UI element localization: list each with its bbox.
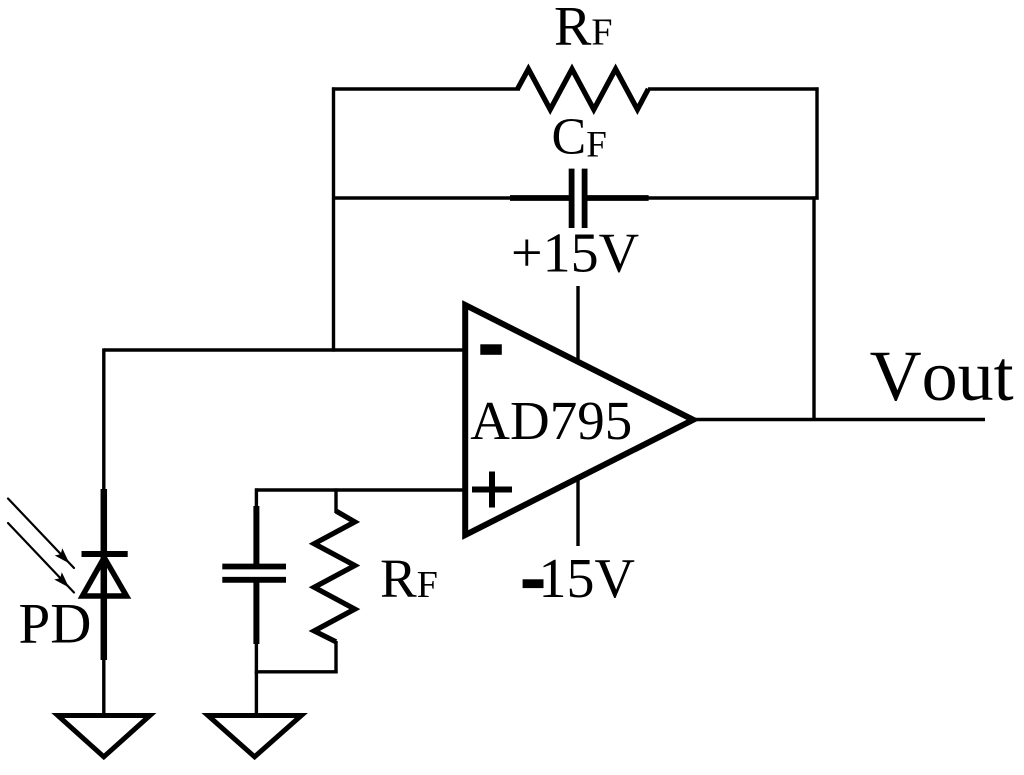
power +15V vertical lead — [576, 286, 579, 361]
label -15V — [523, 579, 544, 588]
light arrow 1 — [8, 499, 74, 569]
power -15V vertical lead — [576, 478, 579, 546]
resistor RF (feedback) — [518, 69, 649, 110]
svg-text:AD795: AD795 — [470, 390, 632, 451]
wire: input cap bottom lead (thin) — [255, 642, 258, 673]
wire: inverting input (from photodiode node to op-amp) — [104, 348, 465, 351]
light arrow 2 — [8, 523, 74, 593]
wire: input resistor bottom lead — [334, 641, 337, 673]
wire: non-inverting input (from RC node to op-amp) — [255, 488, 465, 491]
wire: RC node to ground (thin) — [255, 672, 258, 718]
wire: photodiode anode lead (thin) — [102, 348, 105, 492]
op-amp inverting input marker (-) — [480, 344, 502, 355]
wire: output — [693, 418, 985, 421]
wire: CF branch, right thin segment — [646, 196, 819, 199]
ground (photodiode) — [58, 716, 150, 757]
wire: input cap top lead (thin) — [255, 488, 258, 510]
wire: left vertical feedback bus — [332, 87, 335, 351]
wire: top feedback horizontal, right segment — [648, 87, 819, 90]
wire: photodiode cathode to ground (thin) — [102, 658, 105, 718]
op-amp U1 — [465, 305, 693, 535]
ground (RC network) — [208, 716, 301, 757]
svg-text:+15V: +15V — [511, 223, 639, 285]
wire: CF branch, left thin segment — [332, 196, 512, 199]
resistor RF (input, vertical) — [314, 511, 355, 642]
photodiode PD — [82, 489, 128, 660]
wire: right vertical from CF node to output node — [812, 196, 815, 419]
svg-text:15V: 15V — [539, 548, 635, 610]
op-amp non-inverting input marker (+) — [472, 472, 512, 508]
svg-text:PD: PD — [19, 593, 92, 656]
svg-text:Vout: Vout — [870, 336, 1014, 416]
wire: RC bottom joining segment — [255, 670, 338, 673]
capacitor CF — [510, 169, 649, 228]
capacitor C1 (input RC) — [222, 506, 286, 644]
wire: right vertical from RF to CF node — [815, 87, 818, 199]
wire: top feedback horizontal, left segment — [332, 87, 520, 90]
wire: input resistor top lead — [334, 488, 337, 513]
